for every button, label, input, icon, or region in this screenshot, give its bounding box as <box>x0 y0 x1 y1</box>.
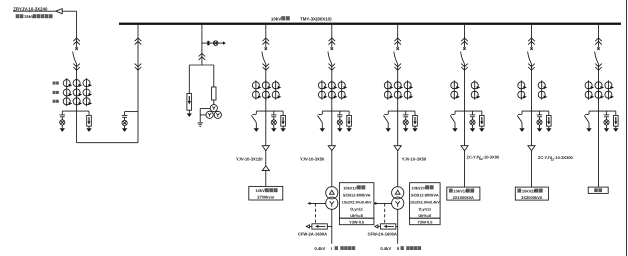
feeder-6 surge arrester <box>613 111 618 132</box>
feeder-1 CT column C <box>272 80 281 99</box>
feeder-6 drawout contact upper <box>595 38 602 45</box>
feeder-2 LV breaker CFW-2A-1600A <box>312 224 327 229</box>
wire PT fuse branch <box>213 65 215 87</box>
feeder-6 earthing switch <box>584 111 592 132</box>
feeder-6 live-display device <box>604 111 610 132</box>
wire fuse to PT <box>213 100 215 105</box>
wire feeder-4 spine upper <box>464 25 466 48</box>
feeder-4 surge arrester <box>479 111 484 132</box>
feeder-3 LV lateral arrow <box>373 202 376 205</box>
feeder-2 sub box YJW-0.5 <box>339 218 374 225</box>
wire feeder-5 spine mid <box>531 64 533 111</box>
incoming source note text <box>16 14 53 19</box>
label feeder-2 0.4kV section <box>315 246 356 251</box>
wire feeder-5 tap bar <box>522 110 549 112</box>
svg-text:YJV-10-3X50: YJV-10-3X50 <box>300 156 325 161</box>
feeder-3 drawout contact lower <box>394 64 401 71</box>
feeder-3 LV breaker CFW-2A-1600A <box>380 224 395 229</box>
wire feeder-6 tap bar <box>589 110 616 112</box>
feeder-3 CT column C <box>404 80 413 99</box>
feeder-4 cable head down <box>461 146 468 151</box>
feeder-4 drawout contact lower <box>461 64 468 71</box>
wire feeder-3 tap bar <box>388 110 415 112</box>
feeder-5 earthing switch <box>517 111 525 132</box>
wire feeder-6 spine upper <box>598 25 600 48</box>
wire feeder-1 spine mid <box>265 64 267 111</box>
feeder-1 circuit breaker <box>262 47 267 64</box>
svg-text:D,yn11: D,yn11 <box>419 206 432 211</box>
wire incoming feeder mid <box>76 64 78 111</box>
wire feeder-3 spine mid <box>397 64 399 111</box>
PT bay branch arrow <box>223 41 226 44</box>
label capacitor 10kV 2700kvar <box>255 188 277 199</box>
wire incoming feeder drop <box>76 11 78 47</box>
transformer T1 (D/Yn) <box>326 187 338 210</box>
feeder-1 cable head down <box>262 146 269 151</box>
incoming circuit breaker <box>73 47 78 64</box>
wire feeder-1 spine lower <box>265 111 267 186</box>
wire PT bay drop <box>201 25 203 65</box>
riser drawout contact lower <box>135 64 142 71</box>
label feeder-2 spec text <box>342 185 372 218</box>
svg-text:10kV: 10kV <box>255 188 265 193</box>
feeder-1 CT column A <box>252 80 261 99</box>
svg-text:3X2000kVA: 3X2000kVA <box>521 195 542 200</box>
svg-text:Uk%=6: Uk%=6 <box>418 213 432 218</box>
feeder-3 earthing switch <box>383 111 391 132</box>
feeder-2 CT column A <box>318 80 327 99</box>
feeder-1 drawout contact upper <box>263 38 270 45</box>
svg-text:CFW-2A-1600A: CFW-2A-1600A <box>368 232 397 237</box>
svg-text:YJV-10-3X50: YJV-10-3X50 <box>402 156 427 161</box>
feeder-3 transformer spec box <box>410 183 441 219</box>
feeder-3 cable head down <box>394 146 401 151</box>
busbar 10kV TMY-3X(80X10) <box>119 23 621 25</box>
svg-text:0.4kV: 0.4kV <box>380 246 391 251</box>
incoming live-display device <box>60 111 66 132</box>
incoming CT group column C <box>83 78 92 106</box>
incoming surge arrester <box>86 111 91 132</box>
label spare <box>594 188 598 192</box>
svg-text:SCB12-800kVA: SCB12-800kVA <box>411 192 439 197</box>
wire feeder-3 LV breaker leads <box>378 225 398 227</box>
feeder-3 drawout contact upper <box>394 38 401 45</box>
busbar label 10kV <box>271 16 290 21</box>
svg-text:Y3W-0.5: Y3W-0.5 <box>349 220 365 225</box>
feeder-5 CT column A <box>518 80 527 99</box>
incoming line arrow (to 35kV source) <box>56 9 62 14</box>
feeder-1 surge arrester <box>280 111 285 132</box>
feeder-5 CT column B <box>538 80 547 99</box>
feeder-2 CT column C <box>338 80 347 99</box>
feeder-4 CT column B <box>471 80 480 99</box>
feeder-6 circuit breaker <box>595 47 600 64</box>
wire incoming tap bar <box>62 110 89 112</box>
wire feeder-3 spine lower <box>397 111 399 187</box>
svg-text:YJV-10-3X120: YJV-10-3X120 <box>236 156 263 161</box>
svg-text:10kV2#: 10kV2# <box>411 185 425 190</box>
svg-text:-10-3X300: -10-3X300 <box>554 155 573 160</box>
svg-text:10±2X2.5%/0.4kV: 10±2X2.5%/0.4kV <box>410 200 440 204</box>
wire feeder-1 tap bar <box>256 110 283 112</box>
wire bottom link to bus riser <box>77 142 138 144</box>
wire feeder-2 spine mid <box>331 64 333 111</box>
feeder-6 drawout contact lower <box>595 64 602 71</box>
wire feeder-2 LV lateral <box>309 202 325 204</box>
feeder-3 CT column B <box>394 80 403 99</box>
drawing frame right border <box>626 0 628 256</box>
wire feeder-5 spine lower <box>531 111 533 187</box>
feeder-3 CT column A <box>384 80 393 99</box>
svg-text:-10-3X95: -10-3X95 <box>483 155 500 160</box>
svg-text:TMY-3X(80X10): TMY-3X(80X10) <box>300 16 332 21</box>
svg-text:ZRYJV-10-3X240: ZRYJV-10-3X240 <box>13 6 48 11</box>
riser drawout contact upper <box>135 38 142 45</box>
transformer T2 (D/Yn) <box>392 187 404 210</box>
feeder-2 CT column B <box>328 80 337 99</box>
svg-text:10±2X2.5%/0.4kV: 10±2X2.5%/0.4kV <box>342 200 372 204</box>
wire feeder-2 tap bar <box>322 110 349 112</box>
feeder-1 capacitor bank box <box>249 186 283 200</box>
feeder-2 circuit breaker <box>328 47 333 64</box>
wire feeder-6 spine lower <box>598 111 600 187</box>
feeder-3 circuit breaker <box>394 47 399 64</box>
label to 10kV#2 box substation 3X2000kVA <box>517 189 542 200</box>
svg-text:D,yn11: D,yn11 <box>350 206 363 211</box>
feeder-2 drawout contact upper <box>329 38 336 45</box>
feeder-3 sub box YJW-0.5 <box>410 218 441 225</box>
wire feeder-2 spine upper <box>331 25 333 48</box>
svg-text:10kV: 10kV <box>271 16 281 21</box>
feeder-4 box substation 1 <box>447 187 480 200</box>
svg-text:Uk%=6: Uk%=6 <box>350 213 364 218</box>
feeder-5 box substation 2 <box>515 187 548 200</box>
PT bay indicator lamp <box>213 41 218 46</box>
feeder-5 drawout contact upper <box>528 38 535 45</box>
svg-text:10kV2#: 10kV2# <box>522 189 537 194</box>
feeder-5 cable head down <box>528 146 535 151</box>
svg-text:II: II <box>397 246 399 251</box>
wire feeder-3 LV dashed drop <box>384 203 386 223</box>
wire PT neutral to ground <box>200 109 210 124</box>
feeder-4 live-display device <box>470 111 476 132</box>
wire feeder-5 spine upper <box>531 25 533 48</box>
svg-text:35kV: 35kV <box>24 14 34 19</box>
feeder-2 LV lateral arrow <box>307 202 310 205</box>
wire riser tap bar <box>125 111 138 113</box>
label feeder-3 0.4kV section <box>380 246 421 251</box>
PT bay surge arrester <box>187 94 192 117</box>
svg-text:SCB12-800kVA: SCB12-800kVA <box>343 192 371 197</box>
feeder-2 transformer spec box <box>339 183 374 219</box>
feeder-3 surge arrester <box>412 111 417 132</box>
feeder-1 CT column B <box>262 80 271 99</box>
feeder-6 CT column C <box>605 80 614 99</box>
incoming drawout contact lower <box>73 64 80 71</box>
feeder-6 CT column B <box>595 80 604 99</box>
wire feeder-2 LV spine <box>331 209 333 244</box>
feeder-2 drawout contact lower <box>329 64 336 71</box>
feeder-5 live-display device <box>537 111 543 132</box>
wire PT bay T-split <box>189 64 214 66</box>
feeder-2 surge arrester <box>346 111 351 132</box>
wire feeder-3 spine upper <box>397 25 399 48</box>
wire feeder-1 spine upper <box>265 25 267 48</box>
wire bus riser <box>137 24 139 143</box>
wire feeder-4 tap bar <box>455 110 482 112</box>
feeder-5 circuit breaker <box>528 47 533 64</box>
svg-text:Y3W-0.5: Y3W-0.5 <box>417 220 433 225</box>
feeder-6 spare box <box>588 187 608 193</box>
wire feeder-3 LV lateral <box>375 202 391 204</box>
incoming drawout contact upper <box>73 38 80 45</box>
incoming CT group column A <box>63 78 72 106</box>
svg-text:10kV1#: 10kV1# <box>343 185 357 190</box>
incoming CT group column B <box>73 78 82 106</box>
feeder-5 drawout contact lower <box>528 64 535 71</box>
feeder-3 LV lead arrow <box>375 225 378 228</box>
svg-text:2700kvar: 2700kvar <box>257 194 275 199</box>
ground (PT) <box>197 123 203 127</box>
feeder-2 cable head down <box>328 146 335 151</box>
label feeder-4 cable ZC-YJV22-10-3X95 <box>467 155 500 161</box>
wire feeder-4 spine lower <box>464 111 466 187</box>
wire feeder-2 spine lower <box>331 111 333 187</box>
wire incoming horizontal <box>13 10 77 12</box>
label feeder-3 spec text <box>410 185 440 218</box>
svg-text:2X1000kVA: 2X1000kVA <box>453 195 474 200</box>
svg-text:10kV1#: 10kV1# <box>453 189 468 194</box>
wire feeder-6 spine mid <box>598 64 600 111</box>
PT bay fuse <box>212 87 216 100</box>
riser live-display device <box>122 112 128 132</box>
feeder-1 earthing switch <box>252 111 260 132</box>
wire PT arrester branch <box>188 65 190 94</box>
feeder-2 earthing switch <box>318 111 326 132</box>
wire PT bay display branch <box>202 42 223 44</box>
wire incoming feeder bottom <box>76 111 78 143</box>
svg-text:CFW-2A-1600A: CFW-2A-1600A <box>298 232 327 237</box>
PT bay fuse (display branch) <box>207 41 209 45</box>
feeder-1 cable head up <box>262 166 269 171</box>
label feeder-5 cable ZC-YJV22-10-3X300 <box>538 155 574 161</box>
feeder-1 live-display device <box>271 111 277 132</box>
feeder-4 earthing switch <box>450 111 458 132</box>
svg-text:0.4kV: 0.4kV <box>315 246 326 251</box>
label to 10kV#1 box substation 2X1000kVA <box>449 189 474 200</box>
voltage transformer PT (three windings) <box>206 105 221 119</box>
feeder-5 surge arrester <box>546 111 551 132</box>
wire feeder-3 LV spine <box>397 209 399 244</box>
PT bay drawout contact <box>199 53 206 60</box>
feeder-4 CT column A <box>451 80 460 99</box>
feeder-1 drawout contact lower <box>263 64 270 71</box>
feeder-2 live-display device <box>337 111 343 132</box>
wire feeder-2 LV dashed drop <box>315 203 317 223</box>
CT row labels (metering/protection/metering) <box>53 82 59 103</box>
wire feeder-4 spine mid <box>464 64 466 111</box>
feeder-6 CT column A <box>585 80 594 99</box>
feeder-3 live-display device <box>403 111 409 132</box>
wire feeder-2 LV breaker leads <box>309 225 332 227</box>
feeder-2 LV lead arrow <box>306 225 309 228</box>
feeder-4 drawout contact upper <box>461 38 468 45</box>
svg-text:I: I <box>331 246 332 251</box>
feeder-4 circuit breaker <box>461 47 466 64</box>
